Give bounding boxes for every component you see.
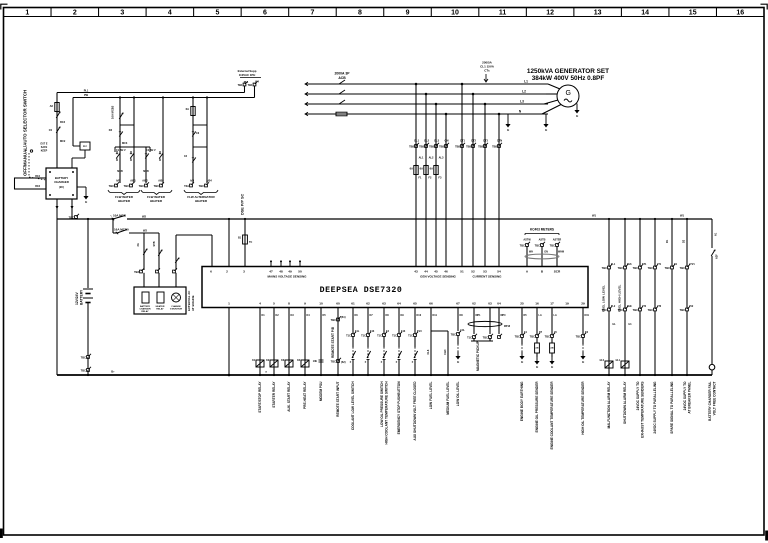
svg-text:TBC: TBC <box>680 308 685 312</box>
svg-text:HEATER: HEATER <box>156 305 165 308</box>
svg-text:K01: K01 <box>585 314 590 317</box>
svg-text:2T6: 2T6 <box>657 305 662 308</box>
svg-text:TBC: TBC <box>550 244 555 248</box>
svg-text:CT1: CT1 <box>460 139 465 143</box>
svg-text:10: 10 <box>319 302 323 306</box>
svg-text:HL0: HL0 <box>600 360 605 362</box>
svg-text:E: E <box>551 365 553 369</box>
svg-text:E: E <box>457 360 459 364</box>
svg-text:┐ 10A MCB: ┐ 10A MCB <box>110 214 127 218</box>
svg-text:TBC: TBC <box>124 184 129 188</box>
svg-text:49: 49 <box>288 270 292 274</box>
svg-text:64: 64 <box>397 302 401 306</box>
svg-text:REMOTE START P/B: REMOTE START P/B <box>331 326 335 358</box>
svg-text:TBC: TBC <box>139 184 144 188</box>
svg-text:48: 48 <box>279 270 283 274</box>
svg-text:TBC: TBC <box>451 333 456 337</box>
svg-text:5: 5 <box>215 10 219 17</box>
svg-text:04: 04 <box>497 302 501 306</box>
svg-text:60: 60 <box>336 302 340 306</box>
svg-text:24VDC SUPPLY TO PARALLELING: 24VDC SUPPLY TO PARALLELING <box>653 381 657 434</box>
svg-text:TBC: TBC <box>69 216 74 220</box>
svg-text:2V2: 2V2 <box>689 305 694 308</box>
svg-text:TBC: TBC <box>648 308 653 312</box>
svg-text:52: 52 <box>471 270 475 274</box>
svg-text:16A MCB0: 16A MCB0 <box>114 228 129 232</box>
svg-text:44: 44 <box>424 270 428 274</box>
svg-text:GL1: GL1 <box>414 139 420 143</box>
svg-text:VOLT FREE CONTACT: VOLT FREE CONTACT <box>712 381 716 415</box>
svg-text:E1L: E1L <box>355 330 360 333</box>
svg-text:110VAC 1PH: 110VAC 1PH <box>239 73 255 77</box>
svg-text:2T1: 2T1 <box>657 263 662 266</box>
svg-text:HL1: HL1 <box>616 360 621 362</box>
svg-text:HIGH OIL TEMPERATURE SENDER: HIGH OIL TEMPERATURE SENDER <box>581 381 585 435</box>
svg-text:PL1: PL1 <box>84 90 89 93</box>
svg-text:CHARGER: CHARGER <box>139 308 150 311</box>
svg-text:TBC: TBC <box>680 266 685 270</box>
svg-text:MAINS VOLTAGE SENSING: MAINS VOLTAGE SENSING <box>268 275 308 279</box>
svg-text:WHM: WHM <box>558 251 564 254</box>
svg-text:TL2: TL2 <box>611 305 616 308</box>
svg-text:PW: PW <box>84 94 89 97</box>
svg-text:MCB: MCB <box>117 170 123 173</box>
svg-text:STARTER RELAY: STARTER RELAY <box>272 381 276 408</box>
svg-text:T1C: T1C <box>408 334 413 338</box>
svg-text:RELAY: RELAY <box>156 308 164 311</box>
svg-text:CURRENT SENSING: CURRENT SENSING <box>472 275 502 279</box>
svg-text:A/B2: A/B2 <box>142 180 148 183</box>
svg-text:ASTW: ASTW <box>523 239 531 242</box>
svg-text:FHE: FHE <box>627 305 632 308</box>
svg-text:47: 47 <box>269 270 273 274</box>
svg-text:W4: W4 <box>255 81 259 84</box>
svg-text:L3: L3 <box>520 100 524 104</box>
svg-text:T3A: T3A <box>184 184 189 188</box>
svg-text:LA: LA <box>554 314 557 317</box>
svg-text:53: 53 <box>483 270 487 274</box>
svg-text:E: E <box>85 200 87 204</box>
svg-text:TBC: TBC <box>530 335 535 339</box>
svg-text:E13: E13 <box>401 330 406 333</box>
svg-text:FH0: FH0 <box>443 349 447 354</box>
svg-text:AUX SHUTDOWN VOLT FREE CLOSED: AUX SHUTDOWN VOLT FREE CLOSED <box>413 381 417 441</box>
svg-text:19: 19 <box>565 302 569 306</box>
svg-text:CHANGE: CHANGE <box>171 305 181 308</box>
svg-text:LOL: LOL <box>460 329 465 332</box>
svg-text:16: 16 <box>736 10 744 17</box>
svg-text:SHUTDOWN ALARM RELAY: SHUTDOWN ALARM RELAY <box>623 381 627 424</box>
svg-text:MCB: MCB <box>143 170 149 173</box>
svg-text:02: 02 <box>472 302 476 306</box>
svg-text:TBC: TBC <box>633 266 638 270</box>
svg-text:MALFUNCTION ALARM RELAY: MALFUNCTION ALARM RELAY <box>607 381 611 429</box>
svg-text:24VDC SUPPLY TO: 24VDC SUPPLY TO <box>636 381 640 410</box>
svg-text:GN: GN <box>445 139 449 143</box>
svg-text:T1C: T1C <box>377 334 382 338</box>
svg-text:A/B1: A/B1 <box>130 180 136 183</box>
svg-text:T1C: T1C <box>392 334 397 338</box>
svg-text:12: 12 <box>546 10 554 17</box>
svg-text:MP1: MP1 <box>476 314 482 317</box>
svg-text:6A: 6A <box>420 167 423 171</box>
svg-text:TB8: TB8 <box>409 145 414 149</box>
svg-text:G: G <box>565 90 570 97</box>
svg-text:HIGH COOLANT TEMPERATURE SWITC: HIGH COOLANT TEMPERATURE SWITCH <box>384 381 388 445</box>
svg-text:TBC: TBC <box>109 184 114 188</box>
svg-text:AL2: AL2 <box>429 156 434 160</box>
svg-text:TB8: TB8 <box>492 145 497 149</box>
svg-text:TBC: TBC <box>331 360 336 364</box>
svg-text:A/B: A/B <box>116 180 120 183</box>
svg-text:MAGNETIC PICKUP: MAGNETIC PICKUP <box>476 340 480 371</box>
svg-text:TB1: TB1 <box>238 83 243 87</box>
svg-text:A6: A6 <box>50 104 54 108</box>
svg-text:3: 3 <box>120 10 124 17</box>
svg-text:6A: 6A <box>410 167 413 171</box>
svg-text:START/STOP RELAY: START/STOP RELAY <box>258 381 262 413</box>
svg-text:TB8: TB8 <box>455 145 460 149</box>
svg-text:TBC: TBC <box>154 184 159 188</box>
svg-text:RC4: RC4 <box>35 175 40 178</box>
svg-text:ASTER: ASTER <box>553 239 562 242</box>
svg-text:AT ENGINE: AT ENGINE <box>191 295 195 311</box>
svg-text:REMOTE START INPUT: REMOTE START INPUT <box>336 381 340 416</box>
svg-text:BATTERY CHARGER FAIL: BATTERY CHARGER FAIL <box>708 381 712 420</box>
svg-text:HEATER: HEATER <box>118 199 131 203</box>
svg-text:TBC: TBC <box>520 244 525 248</box>
svg-text:BATTERY: BATTERY <box>140 305 151 308</box>
svg-text:A/B4: A/B4 <box>206 180 212 183</box>
svg-text:OFF/MANUAL/AUTO SELECTOR SWIT: OFF/MANUAL/AUTO SELECTOR SWITCH <box>23 90 28 176</box>
svg-text:TB8: TB8 <box>429 145 434 149</box>
svg-text:ENGINE COOLANT TEMPERATURE SEN: ENGINE COOLANT TEMPERATURE SENDER <box>550 381 554 450</box>
svg-text:GL2: GL2 <box>424 139 430 143</box>
svg-text:5: 5 <box>273 302 275 306</box>
svg-text:ENGINE OIL PRESSURE SENDER: ENGINE OIL PRESSURE SENDER <box>535 381 539 433</box>
svg-text:13: 13 <box>594 10 602 17</box>
svg-text:TBC: TBC <box>81 369 86 373</box>
svg-text:GN: GN <box>544 251 548 254</box>
svg-text:GL3: GL3 <box>434 139 440 143</box>
svg-text:62: 62 <box>366 302 370 306</box>
svg-text:TBC: TBC <box>535 244 540 248</box>
svg-text:C: C <box>25 149 27 152</box>
svg-text:17: 17 <box>550 302 554 306</box>
svg-text:ST1: ST1 <box>642 263 647 266</box>
svg-text:TB8: TB8 <box>419 145 424 149</box>
svg-text:24VDC SUPPLY TO: 24VDC SUPPLY TO <box>683 381 687 410</box>
svg-text:L1: L1 <box>524 80 528 84</box>
svg-text:E: E <box>576 114 578 118</box>
svg-text:4: 4 <box>168 10 172 17</box>
svg-text:DEEPSEA DSE7320: DEEPSEA DSE7320 <box>320 286 403 295</box>
svg-text:CTs: CTs <box>484 69 490 73</box>
svg-text:DSE P/P SC: DSE P/P SC <box>241 193 245 215</box>
svg-text:A2F: A2F <box>716 254 719 259</box>
svg-text:FL1: FL1 <box>611 263 616 266</box>
svg-text:384kW 400V 50Hz 0.8PF: 384kW 400V 50Hz 0.8PF <box>532 75 605 82</box>
svg-text:EMERGENCY STOP PUSHBUTTON: EMERGENCY STOP PUSHBUTTON <box>397 381 401 435</box>
svg-text:2: 2 <box>226 270 228 274</box>
svg-text:TC: TC <box>249 241 252 244</box>
svg-text:KC403 METERS: KC403 METERS <box>530 228 554 232</box>
svg-text:AUX. START RELAY: AUX. START RELAY <box>287 381 291 412</box>
svg-text:RC3: RC3 <box>60 121 66 124</box>
svg-text:FL6: FL6 <box>426 349 430 354</box>
svg-text:CT3: CT3 <box>483 139 488 143</box>
svg-text:(2C): (2C) <box>59 185 64 189</box>
svg-text:L2: L2 <box>522 90 526 94</box>
svg-text:PFC: PFC <box>83 146 88 148</box>
svg-text:15: 15 <box>689 10 697 17</box>
svg-text:HEATER: HEATER <box>195 199 208 203</box>
svg-text:45: 45 <box>434 270 438 274</box>
svg-text:8: 8 <box>288 302 290 306</box>
svg-text:TBC: TBC <box>515 335 520 339</box>
svg-text:W1: W1 <box>592 214 597 218</box>
svg-text:9: 9 <box>406 10 410 17</box>
svg-text:1250kVA GENERATOR SET: 1250kVA GENERATOR SET <box>527 68 609 75</box>
svg-text:TBC: TBC <box>648 266 653 270</box>
svg-text:TBC: TBC <box>483 336 488 340</box>
svg-text:TBC: TBC <box>81 356 86 360</box>
svg-text:29: 29 <box>581 302 585 306</box>
svg-text:E: E <box>582 360 584 364</box>
svg-text:T1C: T1C <box>467 336 472 340</box>
svg-text:MP18: MP18 <box>504 326 511 328</box>
svg-text:C2 W2 V: C2 W2 V <box>146 149 156 152</box>
svg-text:43: 43 <box>414 270 418 274</box>
svg-text:16A MCB3: 16A MCB3 <box>111 105 115 119</box>
svg-text:TBC: TBC <box>199 184 204 188</box>
svg-text:E: E <box>507 128 509 132</box>
svg-text:RC3: RC3 <box>35 185 40 188</box>
svg-text:B+: B+ <box>111 370 115 374</box>
svg-text:MC2: MC2 <box>60 140 66 143</box>
svg-text:K10: K10 <box>417 314 422 317</box>
svg-text:W2: W2 <box>142 215 147 219</box>
svg-text:HL: HL <box>613 323 617 326</box>
svg-text:EV3: EV3 <box>417 330 422 333</box>
svg-text:6: 6 <box>210 270 212 274</box>
svg-text:66: 66 <box>429 302 433 306</box>
svg-text:3: 3 <box>243 270 245 274</box>
svg-text:W1: W1 <box>680 214 685 218</box>
svg-text:AT BREAKER PANEL: AT BREAKER PANEL <box>687 381 691 413</box>
svg-text:MEDIUM FUEL LEVEL: MEDIUM FUEL LEVEL <box>446 381 450 414</box>
svg-text:AL3: AL3 <box>439 156 444 160</box>
svg-text:03: 03 <box>488 302 492 306</box>
svg-text:46: 46 <box>444 270 448 274</box>
svg-text:2G: 2G <box>137 243 140 246</box>
svg-text:TBC: TBC <box>618 266 623 270</box>
svg-text:2T2: 2T2 <box>642 305 647 308</box>
svg-text:61: 61 <box>351 302 355 306</box>
svg-text:12V/24V: 12V/24V <box>75 292 79 305</box>
svg-text:CHARGER: CHARGER <box>54 180 70 184</box>
svg-text:FUEL LOW LEVEL: FUEL LOW LEVEL <box>602 285 606 312</box>
svg-text:TB3: TB3 <box>134 270 139 274</box>
svg-text:E13: E13 <box>370 330 375 333</box>
svg-text:C1 W2 V: C1 W2 V <box>116 149 126 152</box>
svg-text:ENGINE BODY EARTHING: ENGINE BODY EARTHING <box>520 381 524 421</box>
svg-text:V.MONITOR: V.MONITOR <box>170 309 183 311</box>
svg-text:65: 65 <box>413 302 417 306</box>
svg-text:T1C: T1C <box>346 334 351 338</box>
svg-text:CTN: CTN <box>497 139 502 143</box>
svg-text:RELAY: RELAY <box>141 310 149 313</box>
svg-text:E: E <box>521 360 523 364</box>
svg-text:T1C: T1C <box>361 334 366 338</box>
svg-text:8: 8 <box>358 10 362 17</box>
svg-text:K11: K11 <box>433 314 438 317</box>
svg-text:CT2: CT2 <box>471 139 476 143</box>
svg-text:MODEM PSU: MODEM PSU <box>319 381 323 401</box>
svg-text:14: 14 <box>641 10 649 17</box>
svg-text:TB8: TB8 <box>439 145 444 149</box>
svg-text:51: 51 <box>460 270 464 274</box>
svg-text:WH: WH <box>529 251 533 254</box>
svg-text:63: 63 <box>382 302 386 306</box>
svg-text:9: 9 <box>304 302 306 306</box>
svg-text:TB8: TB8 <box>478 145 483 149</box>
svg-text:TB1: TB1 <box>248 83 253 87</box>
svg-text:67: 67 <box>456 302 460 306</box>
svg-text:STB: STB <box>153 241 156 246</box>
svg-text:TBC: TBC <box>602 266 607 270</box>
svg-text:4: 4 <box>259 302 261 306</box>
svg-text:6: 6 <box>263 10 267 17</box>
svg-text:SPARE SIGNAL TO PARALLELING: SPARE SIGNAL TO PARALLELING <box>670 381 674 434</box>
svg-text:PRE-HEAT RELAY: PRE-HEAT RELAY <box>303 381 307 409</box>
svg-text:7: 7 <box>311 10 315 17</box>
svg-text:LTV1: LTV1 <box>689 263 695 266</box>
svg-text:(S2): (S2) <box>341 361 346 364</box>
svg-text:MP0: MP0 <box>501 314 507 317</box>
svg-text:11: 11 <box>499 10 507 17</box>
svg-text:A/B3: A/B3 <box>158 180 164 183</box>
svg-text:TBC: TBC <box>545 335 550 339</box>
svg-text:TBC: TBC <box>331 318 336 322</box>
svg-text:54: 54 <box>497 270 501 274</box>
svg-text:COOLANT LOW LEVEL SWITCH: COOLANT LOW LEVEL SWITCH <box>351 381 355 430</box>
svg-text:ACB: ACB <box>338 76 346 80</box>
svg-text:10E: 10E <box>313 360 318 363</box>
svg-text:10: 10 <box>451 10 459 17</box>
svg-text:2: 2 <box>73 10 77 17</box>
svg-text:BATTERY: BATTERY <box>80 289 84 305</box>
svg-text:1: 1 <box>25 10 29 17</box>
svg-text:6A: 6A <box>186 107 189 111</box>
svg-text:EXHAUST TEMPERATURE SENDERS: EXHAUST TEMPERATURE SENDERS <box>640 382 644 438</box>
svg-text:FH6: FH6 <box>627 263 632 266</box>
svg-text:TBC: TBC <box>576 335 581 339</box>
svg-text:LOW OIL LEVEL: LOW OIL LEVEL <box>456 381 460 406</box>
svg-text:25: 25 <box>520 302 524 306</box>
svg-text:GEN VOLTAGE SENSING: GEN VOLTAGE SENSING <box>420 275 456 279</box>
svg-text:AL1: AL1 <box>419 156 424 160</box>
svg-text:2000A 3P: 2000A 3P <box>335 72 351 76</box>
svg-text:50: 50 <box>298 270 302 274</box>
svg-text:HEATER: HEATER <box>150 199 163 203</box>
svg-text:TBC: TBC <box>633 308 638 312</box>
svg-text:SCR: SCR <box>554 270 561 274</box>
svg-text:(S1): (S1) <box>341 316 346 319</box>
svg-text:16: 16 <box>535 302 539 306</box>
svg-text:6A: 6A <box>430 167 433 171</box>
svg-text:E: E <box>545 128 547 132</box>
svg-text:LA: LA <box>539 314 542 317</box>
svg-text:FUEL HIGH LEVEL: FUEL HIGH LEVEL <box>618 284 622 312</box>
svg-text:MC3: MC3 <box>122 142 128 145</box>
svg-text:E: E <box>536 365 538 369</box>
svg-text:ASTB: ASTB <box>539 239 546 242</box>
svg-text:W2: W2 <box>143 229 147 233</box>
svg-text:LOW OIL PRESSURE SWITCH: LOW OIL PRESSURE SWITCH <box>380 381 384 427</box>
svg-text:PL1: PL1 <box>244 81 249 84</box>
svg-text:TBC: TBC <box>665 266 670 270</box>
svg-text:TB8: TB8 <box>466 145 471 149</box>
svg-text:LOW FUEL LEVEL: LOW FUEL LEVEL <box>429 381 433 409</box>
svg-text:1: 1 <box>228 302 230 306</box>
svg-text:KEEP: KEEP <box>41 150 48 153</box>
